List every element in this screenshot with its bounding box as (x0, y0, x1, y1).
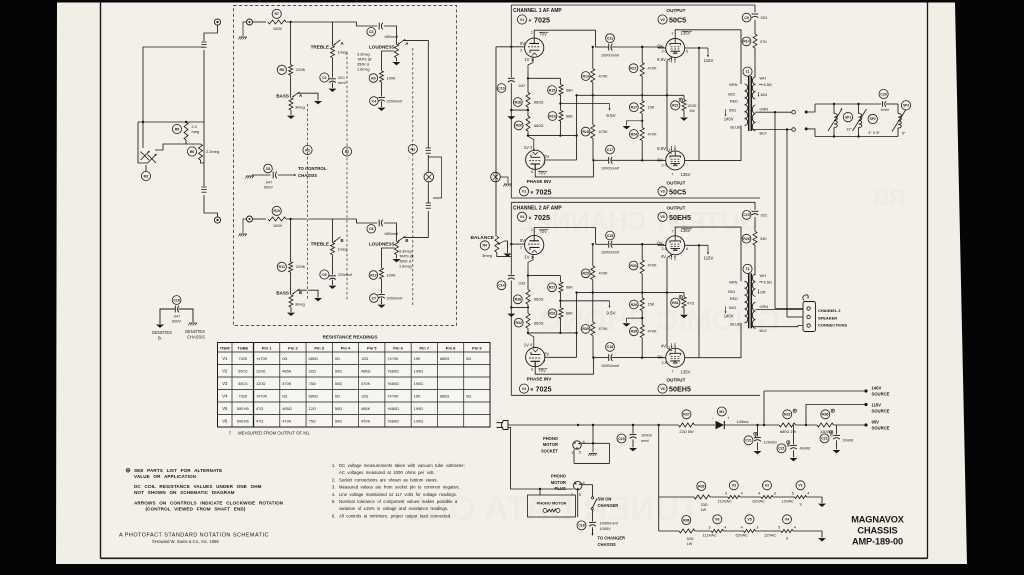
ground stub mid divider (627, 318, 643, 323)
svg-text:20mfd: 20mfd (843, 437, 854, 442)
svg-text:2.2meg: 2.2meg (206, 149, 219, 154)
resistor R33 470K top (629, 261, 638, 270)
svg-text:15K: 15K (648, 104, 655, 109)
AC line wire top (507, 423, 509, 425)
svg-text:R16: R16 (515, 100, 521, 104)
svg-text:mmf: mmf (338, 80, 346, 85)
wire rail corner to C6 (357, 219, 378, 223)
ground below input capacitor (507, 314, 515, 317)
resistor R39 33ohm 1W (697, 482, 706, 491)
svg-text:4: 4 (724, 525, 726, 529)
wire treble top (332, 22, 334, 46)
svg-text:C16: C16 (607, 345, 613, 349)
svg-text:B: B (531, 190, 534, 194)
svg-text:C20: C20 (880, 92, 886, 96)
svg-text:R26: R26 (743, 237, 749, 241)
svg-text:R23: R23 (784, 413, 790, 417)
svg-text:190Ω: 190Ω (414, 381, 423, 386)
svg-text:PHASE INV: PHASE INV (527, 377, 553, 382)
svg-text:190Ω: 190Ω (414, 368, 423, 373)
svg-text:TO CHANGER: TO CHANGER (598, 536, 625, 541)
svg-text:470K: 470K (282, 418, 291, 423)
svg-text:CHASSIS: CHASSIS (187, 335, 205, 340)
svg-text:Socket connections are shown a: Socket connections are shown as bottom v… (339, 477, 438, 482)
wire T2 BLK to connector (752, 327, 756, 329)
cathode resistor R22 120Ω (683, 95, 685, 99)
svg-text:680Ω: 680Ω (440, 356, 449, 361)
svg-text:100K: 100K (387, 75, 396, 80)
svg-text:TUNER DATA ONLY: TUNER DATA ONLY (384, 490, 700, 528)
svg-text:V3: V3 (660, 190, 664, 194)
ground below cathode resistor (683, 111, 685, 117)
svg-text:6: 6 (686, 247, 688, 251)
transformer T1 primary winding (745, 84, 748, 125)
svg-text:R19: R19 (549, 114, 555, 118)
svg-text:R36: R36 (822, 413, 828, 417)
heater row 1 wire (659, 496, 694, 498)
svg-text:0V: 0V (544, 154, 549, 159)
svg-text:R27: R27 (549, 286, 555, 290)
svg-text:470K: 470K (361, 381, 370, 386)
svg-text:0V: 0V (657, 157, 662, 162)
svg-text:4: 4 (807, 491, 809, 495)
svg-text:2-5: 2-5 (662, 247, 668, 251)
cathode lead V4A (528, 255, 533, 268)
svg-text:C14: C14 (498, 284, 504, 288)
svg-text:47Ω: 47Ω (256, 418, 263, 423)
wire plate V1A (534, 30, 595, 47)
output pentode V5 (666, 236, 685, 255)
svg-text:1: 1 (531, 31, 533, 35)
svg-text:MEASURED FROM OUTPUT OF M1.: MEASURED FROM OUTPUT OF M1. (238, 431, 311, 436)
svg-text:3meg: 3meg (482, 253, 492, 258)
svg-text:4: 4 (794, 525, 796, 529)
svg-text:DENOTES: DENOTES (185, 329, 205, 334)
wire output grid 1 (658, 244, 666, 246)
wire cap return to cathode divider (511, 306, 528, 308)
wire R6 to lower cable (201, 160, 205, 163)
feedback capacitor C13 .022 (742, 211, 751, 220)
svg-text:7: 7 (543, 162, 545, 166)
heater row2 ground (793, 531, 822, 538)
svg-text:485Ω: 485Ω (361, 368, 370, 373)
svg-text:8.5Ω: 8.5Ω (764, 280, 772, 285)
svg-text:120mfd: 120mfd (764, 439, 777, 444)
svg-text:3.3meg: 3.3meg (399, 249, 412, 253)
svg-text:†680Ω: †680Ω (387, 406, 399, 411)
svg-text:3: 3 (708, 525, 710, 529)
wire R37 to M1 (695, 424, 716, 426)
svg-text:6: 6 (531, 368, 533, 372)
wire plate V4A (534, 228, 595, 245)
svg-text:Pin 3: Pin 3 (314, 345, 324, 350)
shielded output lead channel 1 (427, 45, 429, 148)
page border right rule (927, 3, 929, 559)
phase inverter triode V1B (526, 150, 545, 169)
svg-text:680mmf: 680mmf (385, 35, 400, 39)
wire 470K divider (592, 47, 594, 69)
gang shaft dashed line R2 (346, 52, 348, 300)
wire vertical taps into connector (775, 308, 803, 310)
svg-text:BASS: BASS (276, 94, 289, 99)
svg-text:6.: 6. (332, 513, 336, 518)
transformer T2 secondary winding (752, 274, 755, 296)
svg-text:120Ω: 120Ω (256, 381, 265, 386)
svg-text:SOCKET: SOCKET (541, 449, 559, 454)
svg-text:LOUDNESS: LOUDNESS (369, 242, 395, 247)
input jack channel 1 (247, 19, 253, 25)
svg-text:16Ω: 16Ω (760, 92, 767, 97)
triode V1A input (525, 38, 544, 57)
screen bus vertical (698, 245, 700, 357)
wire coupling to output grid (596, 243, 609, 245)
filter capacitor C21B 40mfd (777, 444, 786, 453)
output cathode bus (667, 255, 672, 258)
shielded lead continues to channel 2 (427, 182, 429, 203)
svg-text:4V: 4V (661, 343, 666, 348)
svg-text:4: 4 (741, 491, 743, 495)
channel 2 speaker connector (803, 302, 816, 332)
cartridge designator M2 (141, 171, 150, 180)
wire treble 2 bottom to C5 (332, 255, 334, 275)
svg-text:TUBE: TUBE (237, 345, 248, 350)
svg-text:LOUDNESS: LOUDNESS (369, 45, 395, 50)
svg-text:2200mmf: 2200mmf (387, 100, 404, 104)
capacitor C18 10000mmf 1000V (592, 510, 594, 522)
wire treble bottom to C2 (332, 58, 334, 78)
svg-text:680Ω: 680Ω (309, 356, 318, 361)
svg-text:ITEM: ITEM (220, 345, 230, 350)
svg-text:0V: 0V (544, 352, 549, 357)
svg-text:.047: .047 (173, 314, 180, 318)
svg-text:C8: C8 (266, 167, 271, 171)
wire 68K chain (528, 77, 560, 79)
svg-text:10000mmf: 10000mmf (601, 167, 620, 171)
bass wiper wire to ground (298, 93, 319, 100)
output transformer T1 (743, 67, 752, 76)
svg-text:Measured values are from socke: Measured values are from socket pin to c… (339, 485, 460, 490)
to changer chassis (592, 527, 594, 534)
resistor R12 100K (369, 271, 378, 280)
svg-text:R6: R6 (190, 150, 195, 154)
resistor R15 68K (548, 86, 557, 95)
svg-text:1.6meg: 1.6meg (357, 67, 370, 71)
cathode chain wire (527, 267, 529, 289)
rectifier M1 (717, 407, 726, 416)
capacitor C6 680mmf (367, 225, 376, 234)
capacitor C20 1mfd (879, 89, 888, 98)
resistor R11 220K (277, 262, 286, 271)
chassis ground left of C8 (246, 175, 254, 177)
capacitor C3 680mmf (367, 28, 376, 37)
svg-text:V1: V1 (222, 356, 228, 361)
svg-text:1V: 1V (524, 57, 529, 62)
svg-text:C4: C4 (372, 99, 377, 103)
svg-text:7025: 7025 (238, 356, 247, 361)
resistor R23 680ohm 1W (783, 410, 792, 419)
wire R23 to R36 (796, 424, 818, 426)
ground stub mid divider (627, 121, 643, 126)
svg-text:V2: V2 (660, 18, 664, 22)
svg-text:220mmf: 220mmf (338, 273, 353, 277)
svg-text:1: 1 (668, 148, 670, 152)
ground below bass pot 2 (290, 307, 292, 312)
svg-text:CHANNEL 2: CHANNEL 2 (818, 308, 841, 313)
coupling capacitor C17 10000mmf (606, 145, 615, 154)
svg-text:C3: C3 (369, 30, 374, 34)
primary center tap stub (726, 104, 745, 106)
heater feed vertical (658, 425, 660, 531)
svg-text:C9: C9 (744, 16, 749, 20)
cartridge M2 crystal elements (141, 152, 150, 161)
svg-text:190Ω: 190Ω (414, 418, 423, 423)
wire output grid 2 (658, 159, 666, 161)
svg-text:Pin 5: Pin 5 (367, 345, 377, 350)
svg-text:7: 7 (671, 172, 673, 176)
svg-text:A PHOTOFACT STANDARD NOTATION: A PHOTOFACT STANDARD NOTATION SCHEMATIC (119, 532, 269, 538)
svg-text:V3: V3 (222, 381, 228, 386)
svg-text:8.5Ω: 8.5Ω (764, 82, 772, 87)
svg-text:485K: 485K (282, 368, 291, 373)
svg-text:50Ω: 50Ω (335, 381, 342, 386)
svg-text:+: + (727, 415, 730, 420)
svg-text:5: 5 (792, 491, 794, 495)
wire T1 BLK secondary to terminal (752, 130, 756, 132)
wire R12 to C7 (381, 279, 383, 294)
svg-text:R4: R4 (483, 244, 488, 248)
svg-text:1V: 1V (524, 343, 529, 348)
wire phase inv grid to divider (545, 356, 577, 358)
ground below C4 (381, 101, 383, 107)
screen bleed rail (577, 292, 684, 294)
svg-text:4.: 4. (332, 492, 336, 497)
resistor R32 680ohm (514, 318, 523, 327)
plug pin 5 lead (577, 490, 579, 517)
svg-text:C10: C10 (498, 86, 504, 90)
grid wire from balance line (496, 46, 525, 48)
95V source wire (834, 424, 865, 426)
svg-text:40mfd: 40mfd (800, 446, 811, 451)
svg-text:V4: V4 (785, 518, 789, 522)
svg-text:C19: C19 (618, 437, 624, 441)
svg-text:MOTOR: MOTOR (543, 442, 558, 447)
svg-text:470K: 470K (599, 271, 608, 276)
svg-text:R37: R37 (683, 413, 689, 417)
svg-text:115V: 115V (872, 402, 882, 407)
phase inverter triode V4B (526, 348, 545, 367)
wire treble 2 top (332, 219, 334, 243)
chassis ground at input jack 1 (243, 22, 247, 36)
heater V6 (713, 515, 722, 524)
svg-text:SP2: SP2 (870, 117, 876, 121)
heater V4 (783, 515, 792, 524)
wire R5 R6 bottom joins (185, 140, 187, 144)
svg-text:R14: R14 (743, 40, 749, 44)
page border bottom rule (101, 557, 928, 559)
svg-text:3meg: 3meg (295, 105, 305, 110)
svg-text:100K: 100K (387, 272, 396, 277)
svg-text:6: 6 (531, 170, 533, 174)
svg-text:CHASSIS: CHASSIS (857, 525, 897, 535)
svg-text:100K: 100K (273, 223, 283, 228)
svg-text:DENOTES: DENOTES (152, 330, 172, 335)
svg-text:1V: 1V (524, 145, 529, 150)
115V riser (806, 405, 865, 426)
svg-text:SOURCE: SOURCE (872, 426, 890, 431)
heater V2 (763, 481, 772, 490)
svg-text:470K: 470K (282, 381, 291, 386)
resistor R16 680ohm (513, 98, 522, 107)
svg-text:OUTPUT CHANNEL: OUTPUT CHANNEL (519, 206, 760, 236)
svg-text:PHONO: PHONO (551, 473, 567, 478)
wire phase inverter grid return (528, 332, 577, 334)
svg-text:1: 1 (668, 345, 670, 349)
svg-text:BALANCE: BALANCE (471, 235, 495, 241)
svg-text:GRN: GRN (760, 107, 769, 112)
wire channel1 GRN to channel2 connector (774, 111, 776, 113)
wire plug to speaker rails (806, 104, 815, 112)
AC line wire bottom to phono plug (508, 427, 574, 489)
svg-text:R32: R32 (515, 321, 521, 325)
svg-text:470K: 470K (648, 263, 657, 268)
svg-text:7: 7 (671, 370, 673, 374)
heater row1 ground (807, 497, 823, 503)
svg-text:B: B (341, 238, 344, 243)
svg-text:AC voltages measured at 1000 o: AC voltages measured at 1000 ohms per vo… (339, 470, 435, 475)
svg-text:CHANNEL 1 AF AMP: CHANNEL 1 AF AMP (513, 8, 562, 14)
svg-text:680Ω 1W: 680Ω 1W (780, 429, 797, 434)
svg-text:A: A (529, 19, 532, 23)
phono jack lower (214, 217, 220, 223)
left notes block (126, 468, 130, 472)
svg-text:3meg: 3meg (295, 302, 305, 307)
wire down to R11 (290, 219, 292, 262)
speaker terminal circles channel 1 (792, 110, 796, 114)
svg-text:R10: R10 (273, 209, 279, 213)
svg-text:V2: V2 (765, 484, 769, 488)
dashed control-chassis box (234, 6, 457, 326)
output pentode V2 (666, 39, 685, 58)
svg-text:140V: 140V (872, 385, 882, 390)
svg-text:5: 5 (778, 525, 780, 529)
heater V1 (796, 481, 805, 490)
svg-text:†470K: †470K (387, 393, 399, 398)
wire screen divider (641, 244, 643, 260)
svg-text:SOURCE: SOURCE (872, 409, 890, 414)
resistor R31 68K (548, 309, 557, 318)
wire input to R7 (253, 21, 267, 23)
svg-text:WH: WH (760, 76, 767, 81)
svg-text:BRN: BRN (729, 82, 737, 87)
svg-text:1W: 1W (687, 542, 693, 546)
svg-text:V2: V2 (222, 368, 228, 373)
svg-text:WH: WH (760, 273, 767, 278)
svg-text:2000mmf: 2000mmf (387, 297, 404, 301)
svg-text:145ma: 145ma (737, 419, 750, 424)
svg-text:BLK: BLK (760, 131, 768, 136)
svg-text:TAPS @: TAPS @ (399, 254, 414, 258)
svg-text:68K: 68K (566, 113, 573, 118)
svg-text:R22: R22 (672, 104, 678, 108)
svg-text:0Ω: 0Ω (282, 356, 287, 361)
ground below C5 (332, 280, 334, 285)
svg-text:10000mmf: 10000mmf (601, 251, 620, 255)
svg-text:50Ω: 50Ω (335, 368, 342, 373)
svg-text:1V: 1V (524, 255, 529, 260)
speaker SP2 4x8in (857, 103, 859, 105)
svg-text:9.5V: 9.5V (606, 113, 615, 118)
control designator R3 (303, 145, 312, 154)
capacitor C8 .047 600V (264, 164, 273, 173)
svg-text:1W: 1W (701, 508, 707, 512)
svg-text:115V: 115V (704, 256, 714, 261)
svg-text:6: 6 (686, 50, 688, 54)
svg-text:V6: V6 (715, 518, 719, 522)
svg-text:50Ω: 50Ω (335, 418, 342, 423)
screen bleed rail (577, 94, 684, 96)
svg-text:50C5: 50C5 (238, 381, 247, 386)
heater V5 (745, 515, 754, 524)
interconnect plug P1 (424, 172, 434, 182)
wire rail corner to C3 (357, 22, 378, 26)
svg-text:DC COIL RESISTANCE VALUES UNDE: DC COIL RESISTANCE VALUES UNDER ONE OHM (134, 484, 262, 489)
svg-text:OUTPUT: OUTPUT (667, 180, 686, 185)
svg-text:112VAC: 112VAC (718, 499, 732, 504)
svg-text:8.5V: 8.5V (657, 57, 666, 62)
wire output grid 1 (658, 47, 666, 49)
svg-text:C7: C7 (372, 296, 377, 300)
svg-text:680Ω: 680Ω (534, 99, 543, 104)
speaker plug dots (805, 111, 808, 114)
svg-text:.047: .047 (518, 83, 526, 88)
capacitor C7 2000mmf (370, 294, 379, 303)
capacitor C4 2200mmf (370, 97, 379, 106)
denotes chassis ground symbol (189, 322, 197, 324)
svg-text:M2: M2 (144, 174, 149, 178)
resistor R28 680ohm (513, 295, 522, 304)
svg-text:470K: 470K (648, 131, 657, 136)
svg-text:M1: M1 (719, 410, 724, 414)
ground below bass pot 1 (290, 110, 292, 115)
shield braid loop (428, 157, 441, 198)
svg-text:B-: B- (158, 336, 163, 341)
svg-text:120Ω: 120Ω (256, 368, 265, 373)
svg-text:†680Ω: †680Ω (387, 381, 399, 386)
capacitor C2 220mmf (320, 73, 329, 82)
shield marks upper cable (201, 41, 206, 43)
loudness 2 tap wire to R12 (382, 248, 395, 268)
page border left rule (100, 3, 102, 559)
speaker SP1 12in (833, 103, 835, 105)
svg-text:350K &: 350K & (399, 259, 412, 263)
svg-text:C2: C2 (322, 76, 327, 80)
svg-text:R15: R15 (549, 88, 555, 92)
svg-text:.003: .003 (760, 15, 768, 20)
wire C8 to control chassis arrow (278, 174, 296, 176)
svg-text:12": 12" (846, 127, 852, 132)
control designator R1 (408, 144, 417, 153)
wire to lower jack (204, 195, 218, 217)
ground below C7 (381, 298, 383, 304)
cathode chain wire (527, 70, 529, 92)
svg-text:C21: C21 (821, 437, 827, 441)
svg-text:33K: 33K (760, 236, 767, 241)
svg-text:33Ω: 33Ω (701, 503, 708, 507)
loudness 2 wiper wire (403, 237, 428, 239)
svg-text:50C5: 50C5 (669, 16, 686, 25)
svg-text:68K: 68K (566, 87, 573, 92)
svg-text:BRN: BRN (729, 279, 737, 284)
